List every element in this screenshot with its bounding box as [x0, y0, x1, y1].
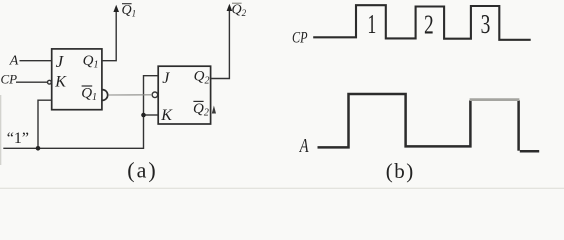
svg-text:CP: CP: [292, 29, 308, 47]
svg-text:CP: CP: [1, 71, 18, 86]
svg-text:J: J: [162, 70, 170, 87]
svg-text:1: 1: [367, 9, 376, 39]
svg-text:(a): (a): [127, 157, 157, 182]
svg-text:A: A: [299, 133, 309, 156]
svg-text:2: 2: [424, 11, 434, 41]
svg-text:3: 3: [481, 10, 491, 40]
svg-text:“1”: “1”: [7, 130, 29, 147]
svg-text:(b): (b): [386, 159, 415, 183]
svg-text:K: K: [160, 107, 173, 124]
svg-text:A: A: [9, 54, 19, 69]
svg-text:K: K: [54, 74, 67, 91]
